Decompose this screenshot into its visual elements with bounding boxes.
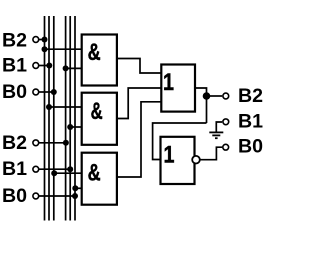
wire bus to U2 AND input 1: [49, 106, 82, 108]
output terminal B2: [223, 93, 229, 99]
NOT gate U5 output bubble: [192, 156, 200, 164]
svg-text:1: 1: [163, 69, 174, 96]
bus line 1 (net B2 top): [44, 16, 46, 221]
svg-text:B2: B2: [2, 29, 27, 51]
wire input B2 bottom to bus: [38, 142, 66, 144]
junction U2 input 1 tap: [46, 104, 52, 110]
junction input B0 top: [51, 89, 57, 95]
output terminal B0: [223, 144, 229, 150]
wire U5 bubble to output terminal B0: [200, 147, 222, 160]
wire input B2 top to bus: [38, 39, 45, 41]
wire input B0 bottom to bus: [38, 195, 75, 197]
svg-text:&: &: [88, 160, 101, 187]
input terminal B0 bottom: [33, 193, 39, 199]
wire bus to U3 AND input 2: [75, 187, 82, 189]
junction input B2 top: [42, 37, 48, 43]
wire bus to U1 AND input 2: [66, 67, 82, 69]
svg-text:1: 1: [164, 142, 175, 169]
svg-text:B2: B2: [2, 132, 27, 154]
wire input B0 top to bus: [38, 91, 54, 93]
bus line 2 (net B1 top): [48, 16, 50, 221]
wire input B1 top to bus: [38, 65, 49, 67]
junction U1 input 1 tap: [42, 46, 48, 52]
junction U3 input 2 tap: [72, 185, 78, 191]
svg-text:&: &: [91, 98, 103, 125]
wire output terminal B1 to ground: [216, 122, 222, 132]
input terminal B2 top: [33, 37, 39, 43]
wire node B2 to output terminal B2: [207, 95, 223, 97]
input terminal B0 top: [33, 89, 39, 95]
junction input B2 bottom: [63, 140, 69, 146]
svg-text:B1: B1: [2, 55, 27, 77]
input terminal B1 bottom: [33, 166, 39, 172]
junction node B2 output: [203, 92, 211, 100]
bus line 6 (net B0 bottom): [74, 16, 76, 221]
wire U1 output to U4 OR input 1: [117, 59, 161, 74]
wire U3 output to U4 OR input 3: [117, 102, 161, 177]
svg-text:B2: B2: [238, 85, 263, 107]
svg-text:B1: B1: [2, 158, 27, 180]
wire bus to U2 AND input 2: [70, 126, 82, 128]
wire node B2 down to U5 input: [153, 123, 207, 160]
input terminal B1 top: [33, 63, 39, 69]
output terminal B1: [223, 119, 229, 125]
wire bus to U3 AND input 1: [54, 172, 82, 174]
input terminal B2 bottom: [33, 140, 39, 146]
OR gate U4 box: [161, 65, 195, 112]
wire U2 output to U4 OR input 2: [117, 88, 161, 119]
junction U1 input 2 tap: [63, 65, 69, 71]
bus line 3 (net B0 top): [53, 16, 55, 221]
svg-text:B0: B0: [2, 185, 27, 207]
junction U3 input 1 tap: [51, 170, 57, 176]
svg-text:B0: B0: [238, 136, 263, 158]
junction input B0 bottom: [72, 193, 78, 199]
junction input B1 top: [46, 63, 52, 69]
AND gate U2 box: [82, 93, 117, 145]
AND gate U3 box: [82, 153, 117, 205]
wire bus to U1 AND input 1: [45, 48, 83, 50]
AND gate U1 box: [82, 35, 117, 86]
junction U2 input 2 tap: [67, 124, 73, 130]
wire U4 OR output to node B2: [195, 88, 207, 123]
NOT gate U5 box: [161, 137, 195, 184]
ground symbol: [209, 132, 223, 138]
bus line 5 (net B1 bottom): [69, 16, 71, 221]
junction input B1 bottom: [67, 166, 73, 172]
wire input B1 bottom to bus: [38, 168, 70, 170]
svg-text:&: &: [88, 39, 101, 66]
svg-text:B0: B0: [2, 81, 27, 103]
bus line 4 (net B2 bottom): [65, 16, 67, 221]
svg-text:B1: B1: [238, 111, 263, 133]
